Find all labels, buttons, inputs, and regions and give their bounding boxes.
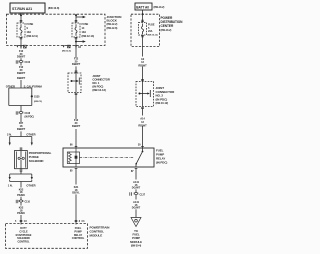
svg-text:(8W-10-2): (8W-10-2) [154,6,165,9]
svg-text:(IN PDC): (IN PDC) [156,97,168,101]
svg-text:86: 86 [70,144,73,147]
svg-text:DB/WT: DB/WT [17,55,26,59]
wire [135,195,137,200]
svg-text:FUSE: FUSE [27,22,34,26]
svg-text:(8W-10-12): (8W-10-12) [156,101,169,105]
solenoid top terminal [20,148,23,149]
svg-text:ST-RUN A21: ST-RUN A21 [12,7,32,11]
svg-text:DB/WT: DB/WT [72,124,81,128]
svg-text:10A: 10A [82,30,87,34]
inline connector C106 [16,60,31,64]
fuse 5 in PDC (dashed box + element) [139,23,147,36]
fuel pump relay box [63,148,154,167]
power distribution center (dashed) [131,14,160,46]
svg-text:(8W-10-8): (8W-10-8) [48,6,59,10]
node: bus dot above fuse 14 [75,14,77,16]
wire to joint connector 1 [75,49,77,58]
junction block exit terminal (middle wire) [75,45,82,49]
svg-text:CONTROL: CONTROL [72,236,85,240]
svg-text:8: 8 [79,221,81,223]
svg-text:(8W-C3): (8W-C3) [34,101,42,103]
label JUNCTION BLOCK [107,15,122,30]
relay coil [67,148,79,167]
wire [20,63,22,66]
svg-text:PUMP: PUMP [74,229,82,233]
label fuse 5 value [148,24,158,37]
wire [20,197,22,200]
node: bus dot above fuse 9 [20,14,22,16]
svg-text:FUEL: FUEL [75,226,82,230]
svg-text:87: 87 [131,170,134,173]
terminal below PDC fuse [141,36,144,37]
label FUEL PUMP RELAY (IN PDC) [156,149,167,165]
splice S135 [31,95,43,103]
svg-text:BATT A0: BATT A0 [136,5,149,9]
wire to JC2 [142,66,144,81]
solenoid bottom terminal [20,170,23,171]
fuse 14 (dashed box + element) [72,23,80,37]
wire label F12 20 DB/WT (left col, upper) [17,49,26,59]
joint connector no. 1 (dashed) [68,73,81,93]
pin 87 [131,169,137,173]
option merge bars below solenoid [9,174,33,182]
svg-text:DG/WT: DG/WT [132,206,141,210]
svg-text:5: 5 [15,221,17,223]
wire [135,189,137,192]
wire label A141 16 DG/WT (upper) [132,180,141,190]
relay switch [135,148,143,167]
wire arrow fuse 14 output branch (lower) [76,40,86,42]
PCM terminal pin 5 C3 [15,220,27,222]
wire ST-RUN box to junction block bus [20,13,22,15]
svg-text:9: 9 [27,26,29,30]
svg-text:(8W-30-4): (8W-30-4) [131,244,142,247]
svg-text:PK/BK: PK/BK [17,211,25,215]
svg-text:DB/YL: DB/YL [72,191,80,195]
label TO FUEL PUMP MODULE [130,229,142,247]
svg-text:DB/WT: DB/WT [17,127,26,131]
inline connector C110 [16,200,30,204]
svg-text:(8W-12-2): (8W-12-2) [107,23,118,26]
power feed box ST-RUN A21 [10,3,45,13]
wire into second option split [20,131,22,136]
terminal below JC2 [141,107,144,108]
wire into PCM [20,215,22,225]
svg-text:(8W-12-8): (8W-12-8) [107,27,118,30]
svg-text:2 N.: 2 N. [7,132,12,136]
wire solenoid to merge split [20,171,22,174]
wire label A0 12 RD/WT (right col, upper) [138,57,147,67]
wire JC1 to relay [75,95,77,120]
svg-text:OTHER: OTHER [26,183,35,187]
svg-text:14: 14 [82,26,85,30]
wire into option split [20,80,22,88]
label PROPORTIONAL PURGE SOLENOID [29,151,52,163]
label POWERTRAIN CONTROL MODULE [90,225,110,237]
svg-text:12: 12 [141,120,144,124]
wire relay coil to PCM [75,169,77,185]
svg-text:OTHER: OTHER [26,132,35,136]
wire [20,203,22,206]
svg-text:1 N.: 1 N. [8,183,13,187]
proportional purge solenoid [15,151,28,169]
label JOINT CONNECTOR NO. 2 [156,86,176,105]
svg-text:C8: C8 [78,47,82,49]
joint connector no. 2 (dashed) [136,82,154,107]
svg-text:FUSE: FUSE [82,22,89,26]
wire label K52 18 PK/BK (left col, fourth) [17,187,25,197]
pin 86 [70,144,77,147]
label DUTY CYCLE EVAP/PURGE SOLENOID CONTROL [16,227,32,244]
terminal above fuse 9 [20,21,23,22]
terminal above JC1 [75,71,78,72]
wire [75,129,77,148]
wire below merge [20,182,22,188]
wire arrow junction block bus branch (upper) [76,16,86,18]
svg-text:85: 85 [70,169,73,172]
svg-text:C108: C108 [25,112,31,115]
svg-text:SOLENOID: SOLENOID [29,159,44,163]
svg-text:30: 30 [138,144,141,147]
PCM terminal pin 8 C3 [75,220,85,222]
svg-text:(8W-10-12): (8W-10-12) [148,34,158,36]
wire fuse 9 to junction block edge [20,38,22,49]
terminal above PDC fuse [141,20,144,21]
terminal above fuse 14 [75,21,78,22]
wire label F12 20 DB/WT (middle col, upper) [72,57,81,67]
svg-text:CONTROL: CONTROL [17,241,30,244]
wire label F12 20 DB/WT (left col, second) [17,65,26,80]
wire PDC fuse down [142,36,144,57]
option split bar to solenoid [9,137,33,146]
terminal below fuse 9 [20,38,23,39]
svg-text:DG/WT: DG/WT [132,186,141,190]
wire bus to fuse 14 [75,14,77,23]
powertrain control module (dashed) [6,224,88,249]
power feed box BATT A0 [135,3,152,10]
inline connector C127 [130,192,146,196]
pin 85 [70,169,77,173]
wire merge to connector [20,106,22,112]
svg-text:(8W-10-2): (8W-10-2) [161,29,172,32]
svg-text:MODULE: MODULE [130,240,142,244]
svg-text:(8W-12-14): (8W-12-14) [82,34,95,38]
wire [20,58,22,60]
svg-text:(8W-12-9): (8W-12-9) [27,34,38,38]
svg-text:RELAY: RELAY [74,233,83,237]
wire fuse 14 to junction block edge [75,38,77,49]
svg-text:BLOCK: BLOCK [107,19,118,23]
svg-text:C127: C127 [140,193,146,196]
label fuse 9 value [27,22,38,38]
svg-text:C106: C106 [25,61,31,64]
wire label K52 18 PK/BK (left col, fifth) [17,206,25,216]
node dot at PDC [142,13,144,15]
wire bus to fuse 9 [20,13,22,23]
node: fuse 14 output junction dot [75,41,77,43]
terminal below fuse 14 [75,38,78,39]
inline connector C108 (IN PDC) [16,111,34,118]
wire label A14 12 RD/WT (right col, lower) [138,116,147,127]
junction block exit terminal (left wire) [16,45,26,48]
wire [142,126,144,148]
svg-text:MODULE: MODULE [90,233,103,237]
svg-text:DB/WT: DB/WT [17,76,26,80]
wire to fuel pump module symbol [135,209,137,217]
label JOINT CONNECTOR NO. 1 [92,74,110,92]
label fuse 14 value [82,22,95,38]
wire [20,114,22,122]
relay mechanical link (dash-dot) [80,157,134,159]
label FUEL PUMP RELAY CONTROL [72,226,85,240]
svg-text:CENTER: CENTER [161,24,174,28]
svg-text:A14: A14 [140,116,145,120]
svg-text:DB/WT: DB/WT [72,62,81,66]
svg-text:C3: C3 [82,221,86,223]
svg-text:(8W-12-12): (8W-12-12) [92,88,106,92]
svg-text:10A: 10A [27,30,32,34]
junction block spare terminal marks [62,45,71,52]
svg-text:DB/WT: DB/WT [17,71,26,75]
wire BATT to PDC [142,10,144,14]
junction block dashed box [7,14,106,45]
svg-text:(8W-12-11): (8W-12-11) [62,51,71,53]
wire label F87 18 DB (left col, third) [17,121,26,131]
svg-text:(IN PDC): (IN PDC) [25,116,35,119]
svg-text:PK/BK: PK/BK [17,193,25,197]
terminal below JC1 [75,93,78,94]
wire label F12 20 DB/WT (middle col, lower) [72,118,81,128]
pin 30 [138,144,144,147]
option split bars [9,88,32,106]
svg-text:(IN PDC): (IN PDC) [156,161,167,165]
terminal above JC2 [141,80,144,81]
label POWER DISTRIBUTION CENTER [161,16,184,32]
svg-text:C3: C3 [24,221,28,223]
svg-text:20A: 20A [148,30,153,33]
fuel pump module connector symbol [131,218,141,227]
svg-text:C110: C110 [25,200,31,203]
svg-text:S135: S135 [34,95,40,98]
wire label K31 18 DB/YL [72,185,80,195]
wire [75,194,77,224]
wire label A141 16 DG/WT (lower) [132,200,141,210]
wire to PDC fuse [142,14,144,22]
wire relay output [135,169,137,180]
wire JC2 to relay [142,109,144,116]
fuse 9 (dashed box + element) [17,23,25,37]
